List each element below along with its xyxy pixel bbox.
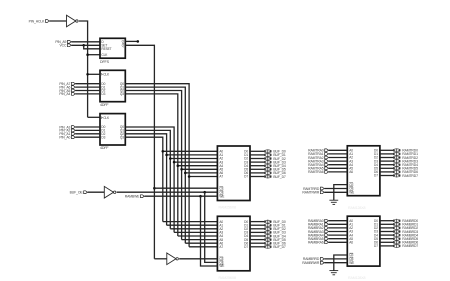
input pin RAMTRA6: [325, 171, 329, 174]
junction OE net branch to RAM U2: [203, 191, 206, 194]
wire RAMBRA6 to U4 A6: [329, 241, 348, 243]
input pin PIN_A9: [68, 40, 72, 43]
bidirectional pin RAMTRD4: [393, 163, 395, 166]
bidirectional pin RAMBRD6: [393, 241, 395, 244]
register U8 4DFF: [100, 114, 125, 145]
wire U4 D5 to pin RAMBRD5: [380, 238, 393, 240]
bidirectional pin BUF_D2 (U1 side): [264, 157, 266, 160]
svg-text:RAM128X8: RAM128X8: [348, 206, 366, 210]
input pin PIN_A4: [72, 93, 76, 96]
RAM U1 (bank 0): [217, 146, 250, 201]
svg-text:RAMTRA6: RAMTRA6: [308, 170, 324, 174]
wire address net A7 to RAM U1 A7: [189, 176, 217, 178]
bidirectional pin RAMBRD4: [393, 234, 395, 237]
wire RAM U1 D1 to pin BUF_D1: [250, 154, 264, 156]
input pin RAMBRWR: [320, 261, 324, 264]
svg-text:D7: D7: [244, 245, 248, 249]
input pin VCC: [68, 44, 72, 47]
bidirectional pin BUF_D1 (U1 side): [264, 154, 266, 157]
wire address net A6 to RAM U2 A6: [185, 242, 217, 244]
wire U4 D1 to pin RAMBRD1: [380, 223, 393, 225]
svg-text:D3: D3: [101, 135, 105, 139]
wire U4 D2 to pin RAMBRD2: [380, 227, 393, 229]
svg-text:RAMTRD7: RAMTRD7: [402, 174, 418, 178]
wire address net A5 to RAM U2 A5: [182, 239, 218, 241]
wire address net A1 to RAM U2 A1: [167, 224, 218, 226]
junction address net A6 at RAM U1 branch: [184, 172, 187, 175]
wire RAMTRRD to U3 OE: [324, 188, 347, 190]
wire RAM U2 D7 to pin BUF_D7: [250, 246, 264, 248]
wire PIN_A6 to U7 D1: [75, 86, 100, 88]
input pin RAMBRA2: [325, 227, 329, 230]
wire CLK net to register U8 CLK pin: [88, 116, 100, 118]
svg-text:CLK: CLK: [103, 116, 110, 120]
RAM U3: [347, 146, 380, 196]
RAM U2 (bank 1): [217, 216, 250, 270]
bidirectional pin BUF_D6 (U2 side): [264, 242, 266, 245]
wire U7 Q1 to address net vertical: [125, 87, 185, 243]
svg-text:A7: A7: [219, 245, 223, 249]
wire PIN_A5 to U7 D2: [75, 90, 100, 92]
svg-text:VCC: VCC: [59, 44, 66, 48]
wire RAMBRA3 to U4 A3: [329, 231, 348, 233]
wire PIN_A7 to U7 D0: [75, 83, 100, 85]
bidirectional pin RAMBRD3: [393, 230, 395, 233]
wire U6 QN net: right and down to bank-select: [125, 45, 154, 258]
bidirectional pin BUF_D3 (U2 side): [264, 231, 266, 234]
svg-text:RAMTRWR: RAMTRWR: [302, 191, 319, 195]
svg-text:BUF_D7: BUF_D7: [273, 175, 286, 179]
wire address net A5 to RAM U1 A5: [182, 168, 218, 170]
svg-text:RAM256X8: RAM256X8: [219, 206, 237, 210]
wire RAM U1 D7 to pin BUF_D7: [250, 176, 264, 178]
junction address net A1 at RAM U1 branch: [165, 154, 168, 157]
wire RAMBRA5 to U4 A5: [329, 238, 348, 240]
wire U3 D3 to pin RAMTRD3: [380, 160, 393, 162]
wire RAMTRA0 to U3 A0: [329, 149, 348, 151]
wire RAMBRA2 to U4 A2: [329, 227, 348, 229]
RAM U4: [347, 216, 380, 266]
wire RAM U1 D2 to pin BUF_D2: [250, 158, 264, 160]
svg-text:4DFF: 4DFF: [100, 103, 109, 107]
bidirectional pin BUF_D7 (U1 side): [264, 175, 266, 178]
bidirectional pin RAMTRD5: [393, 167, 395, 170]
svg-text:A6: A6: [349, 170, 353, 174]
input pin RAMTRA0: [325, 149, 329, 152]
svg-text:WE: WE: [349, 261, 354, 265]
svg-text:RAMBWE: RAMBWE: [125, 194, 140, 198]
wire address net A4 to RAM U1 A4: [178, 165, 218, 167]
wire U4 D3 to pin RAMBRD3: [380, 231, 393, 233]
junction address net A7 at RAM U1 branch: [188, 175, 191, 178]
wire WE net to RAM U2 WE: [201, 196, 218, 266]
wire RAMTRA2 to U3 A2: [329, 157, 348, 159]
junction VCC net: [82, 44, 85, 47]
wire RAMBRRD to U4 OE: [324, 258, 347, 260]
bidirectional pin BUF_D6 (U1 side): [264, 172, 266, 175]
svg-text:RAMBRA6: RAMBRA6: [308, 241, 324, 245]
wire U8 Q0 to address net vertical: [125, 127, 174, 232]
bidirectional pin BUF_D7 (U2 side): [264, 246, 266, 249]
wire PIN_A4 to U7 D3: [75, 93, 100, 95]
input pin RAMBRA0: [325, 219, 329, 222]
bidirectional pin BUF_D4 (U2 side): [264, 235, 266, 238]
wire U4 D4 to pin RAMBRD4: [380, 234, 393, 236]
wire RAMTRA3 to U3 A3: [329, 160, 348, 162]
input pin RAMTRA3: [325, 160, 329, 163]
wire RAMTRA4 to U3 A4: [329, 164, 348, 166]
wire address net A1 to RAM U1 A1: [167, 154, 218, 156]
svg-text:D7: D7: [374, 244, 378, 248]
input pin RAMTRA2: [325, 156, 329, 159]
svg-text:WE: WE: [349, 191, 354, 195]
wire PIN_A0 to U8 D3: [75, 136, 100, 138]
bidirectional pin BUF_D0 (U2 side): [264, 220, 266, 223]
svg-text:PIN_HCLK: PIN_HCLK: [29, 19, 45, 23]
junction address net A0 at RAM U1 branch: [162, 150, 165, 153]
svg-text:BUF_D7: BUF_D7: [273, 245, 286, 249]
wire OE net to RAM U1 OE: [117, 191, 218, 193]
junction CLK net at U6 CLK: [86, 53, 89, 56]
wire RAM U2 D4 to pin BUF_D4: [250, 235, 264, 237]
wire QN net to inverter U10 input: [154, 258, 166, 260]
input pin PIN_A2: [72, 129, 76, 132]
wire QN net to RAM U1 CE: [154, 187, 217, 189]
input pin RAMTRWR: [320, 191, 324, 194]
wire U7 Q3 to address net vertical: [125, 94, 178, 236]
bidirectional pin RAMBRD1: [393, 223, 395, 226]
wire U8 Q1 to address net vertical: [125, 130, 170, 228]
input pin PIN_A7: [72, 82, 76, 85]
input pin RAMBRA1: [325, 223, 329, 226]
input pin RAMTRA4: [325, 163, 329, 166]
wire U7 Q0 to address net vertical: [125, 84, 189, 247]
wire WE net to RAM U1 WE: [144, 195, 217, 197]
svg-text:RESET: RESET: [101, 47, 111, 51]
wire RAM U1 D5 to pin BUF_D5: [250, 168, 264, 170]
wire RAMBRA4 to U4 A4: [329, 234, 348, 236]
wire address net A3 to RAM U1 A3: [174, 161, 217, 163]
svg-text:CLK: CLK: [101, 53, 108, 57]
ground: [329, 270, 338, 272]
register U7 4DFF: [100, 70, 125, 101]
wire RAM U2 D2 to pin BUF_D2: [250, 228, 264, 230]
wire RAM U2 D3 to pin BUF_D3: [250, 231, 264, 233]
wire inverter U5 output to CLK net vertical: [79, 21, 88, 117]
bidirectional pin BUF_D5 (U1 side): [264, 168, 266, 171]
bidirectional pin BUF_D5 (U2 side): [264, 238, 266, 241]
bidirectional pin BUF_D3 (U1 side): [264, 161, 266, 164]
input pin RAMBRA5: [325, 237, 329, 240]
wire RAM U1 D6 to pin BUF_D6: [250, 172, 264, 174]
wire U8 Q2 to address net vertical: [125, 134, 166, 225]
bidirectional pin BUF_D1 (U2 side): [264, 224, 266, 227]
input pin PIN_A5: [72, 89, 76, 92]
junction address net A4 at RAM U1 branch: [177, 164, 180, 167]
wire RAMTRA6 to U3 A6: [329, 171, 348, 173]
input pin PIN_A3: [72, 126, 76, 129]
wire PIN_A3 to U8 D0: [75, 126, 100, 128]
input pin BUF_OE: [84, 191, 88, 194]
wire U4 CE to ground: [334, 255, 348, 271]
wire address net A4 to RAM U2 A4: [178, 235, 218, 237]
input pin RAMBRA3: [325, 230, 329, 233]
wire U4 D6 to pin RAMBRD6: [380, 241, 393, 243]
junction QN net at RAM U1 CE branch: [153, 187, 156, 190]
inverter U9 (output enable): [104, 186, 113, 198]
input pin RAMBRA6: [325, 241, 329, 244]
wire CLK net to DFF U6 CLK pin: [88, 54, 100, 56]
svg-text:RAM128X8: RAM128X8: [348, 276, 366, 280]
input pin RAMTRA1: [325, 153, 329, 156]
wire RAMTRA5 to U3 A5: [329, 167, 348, 169]
wire address net A2 to RAM U2 A2: [170, 228, 217, 230]
input pin RAMTRRD: [320, 187, 324, 190]
wire U3 D5 to pin RAMTRD5: [380, 167, 393, 169]
wire U4 D7 to pin RAMBRD7: [380, 245, 393, 247]
wire U3 D6 to pin RAMTRD6: [380, 171, 393, 173]
wire RAMTRA1 to U3 A1: [329, 153, 348, 155]
wire U3 D4 to pin RAMTRD4: [380, 164, 393, 166]
wire BUF_OE to inverter U9: [88, 191, 105, 193]
wire address net A0 to RAM U2 A0: [163, 221, 218, 223]
wire RAMBRWR to U4 WE: [324, 262, 347, 264]
wire address net A3 to RAM U2 A3: [174, 231, 217, 233]
input pin PIN_A0: [72, 136, 76, 139]
wire PIN_A9 to U6 D: [71, 41, 100, 43]
wire PIN_HCLK to inverter U5: [49, 20, 66, 22]
input pin RAMBRA4: [325, 234, 329, 237]
svg-text:D3: D3: [101, 92, 105, 96]
svg-text:WE: WE: [219, 264, 224, 268]
input pin RAMBWE: [141, 195, 145, 198]
junction CLK net at U7 CLK: [86, 73, 89, 76]
wire U3 CE to ground: [334, 185, 348, 201]
wire VCC net to U6 RESET: [84, 45, 100, 49]
bidirectional pin RAMTRD2: [393, 156, 395, 159]
wire RAMBRA1 to U4 A1: [329, 223, 348, 225]
svg-text:RAMBRWR: RAMBRWR: [302, 261, 320, 265]
wire address net A0 to RAM U1 A0: [163, 150, 218, 152]
bidirectional pin RAMBRD0: [393, 219, 395, 222]
flip-flop U6 DFFS: [100, 38, 125, 58]
wire RAMBRA0 to U4 A0: [329, 220, 348, 222]
input pin PIN_A6: [72, 86, 76, 89]
inverter U5 (HCLK): [67, 15, 76, 27]
svg-text:RAM256X8: RAM256X8: [219, 276, 237, 280]
svg-text:PIN_A4: PIN_A4: [59, 92, 70, 96]
input pin RAMBRRD: [320, 258, 324, 261]
bidirectional pin RAMBRD2: [393, 227, 395, 230]
bidirectional pin BUF_D0 (U1 side): [264, 150, 266, 153]
bidirectional pin RAMTRD0: [393, 149, 395, 152]
inverter U10 (bank select): [167, 253, 176, 265]
svg-text:DFFS: DFFS: [100, 60, 110, 64]
svg-text:Q3: Q3: [120, 135, 124, 139]
bidirectional pin RAMBRD7: [393, 245, 395, 248]
wire U3 D2 to pin RAMTRD2: [380, 157, 393, 159]
wire RAM U2 D0 to pin BUF_D0: [250, 221, 264, 223]
wire U3 D7 to pin RAMTRD7: [380, 175, 393, 177]
svg-text:BUF_OE: BUF_OE: [70, 190, 84, 194]
bidirectional pin RAMTRD6: [393, 171, 395, 174]
svg-text:A6: A6: [349, 241, 353, 245]
junction WE net branch to RAM U2: [199, 195, 202, 198]
wire U3 D1 to pin RAMTRD1: [380, 153, 393, 155]
wire U8 Q3 to address net vertical: [125, 137, 163, 221]
wire OE net to RAM U2 OE: [205, 192, 218, 262]
wire U4 D0 to pin RAMBRD0: [380, 220, 393, 222]
svg-text:A7: A7: [219, 175, 223, 179]
wire U7 Q2 to address net vertical: [125, 91, 181, 240]
input pin PIN_A1: [72, 132, 76, 135]
input pin PIN_HCLK: [46, 20, 50, 23]
wire RAMTRWR to U3 WE: [324, 191, 347, 193]
svg-text:CLK: CLK: [103, 73, 110, 77]
bidirectional pin RAMTRD3: [393, 160, 395, 163]
junction address net A5 at RAM U1 branch: [180, 168, 183, 171]
bidirectional pin BUF_D4 (U1 side): [264, 164, 266, 167]
svg-text:D7: D7: [374, 174, 378, 178]
svg-text:RAMBRD7: RAMBRD7: [402, 244, 418, 248]
junction U6 Q stub end: [137, 40, 140, 43]
wire RAM U1 D3 to pin BUF_D3: [250, 161, 264, 163]
wire RAM U1 D4 to pin BUF_D4: [250, 165, 264, 167]
bidirectional pin RAMBRD5: [393, 237, 395, 240]
wire PIN_A1 to U8 D2: [75, 133, 100, 135]
wire RAM U1 D0 to pin BUF_D0: [250, 150, 264, 152]
bidirectional pin BUF_D2 (U2 side): [264, 228, 266, 231]
svg-text:PIN_A0: PIN_A0: [59, 135, 70, 139]
svg-text:D7: D7: [244, 175, 248, 179]
bidirectional pin RAMTRD7: [393, 174, 395, 177]
wire inverter U10 output to RAM U2 CE: [179, 258, 217, 260]
wire U3 D0 to pin RAMTRD0: [380, 149, 393, 151]
svg-text:WE: WE: [219, 194, 224, 198]
wire U6 Q stub: [125, 40, 138, 42]
wire CLK net to register U7 CLK pin: [88, 73, 100, 75]
wire VCC to U6 SET: [71, 44, 100, 46]
wire PIN_A2 to U8 D1: [75, 129, 100, 131]
svg-text:Q3: Q3: [120, 92, 124, 96]
bidirectional pin RAMTRD1: [393, 153, 395, 156]
junction address net A3 at RAM U1 branch: [173, 161, 176, 164]
input pin RAMTRA5: [325, 167, 329, 170]
wire RAM U2 D5 to pin BUF_D5: [250, 239, 264, 241]
ground: [329, 199, 338, 201]
wire address net A2 to RAM U1 A2: [170, 158, 217, 160]
wire RAM U2 D6 to pin BUF_D6: [250, 242, 264, 244]
svg-text:4DFF: 4DFF: [100, 146, 109, 150]
wire address net A7 to RAM U2 A7: [189, 246, 217, 248]
wire RAM U2 D1 to pin BUF_D1: [250, 224, 264, 226]
junction address net A2 at RAM U1 branch: [169, 157, 172, 160]
wire address net A6 to RAM U1 A6: [185, 172, 217, 174]
